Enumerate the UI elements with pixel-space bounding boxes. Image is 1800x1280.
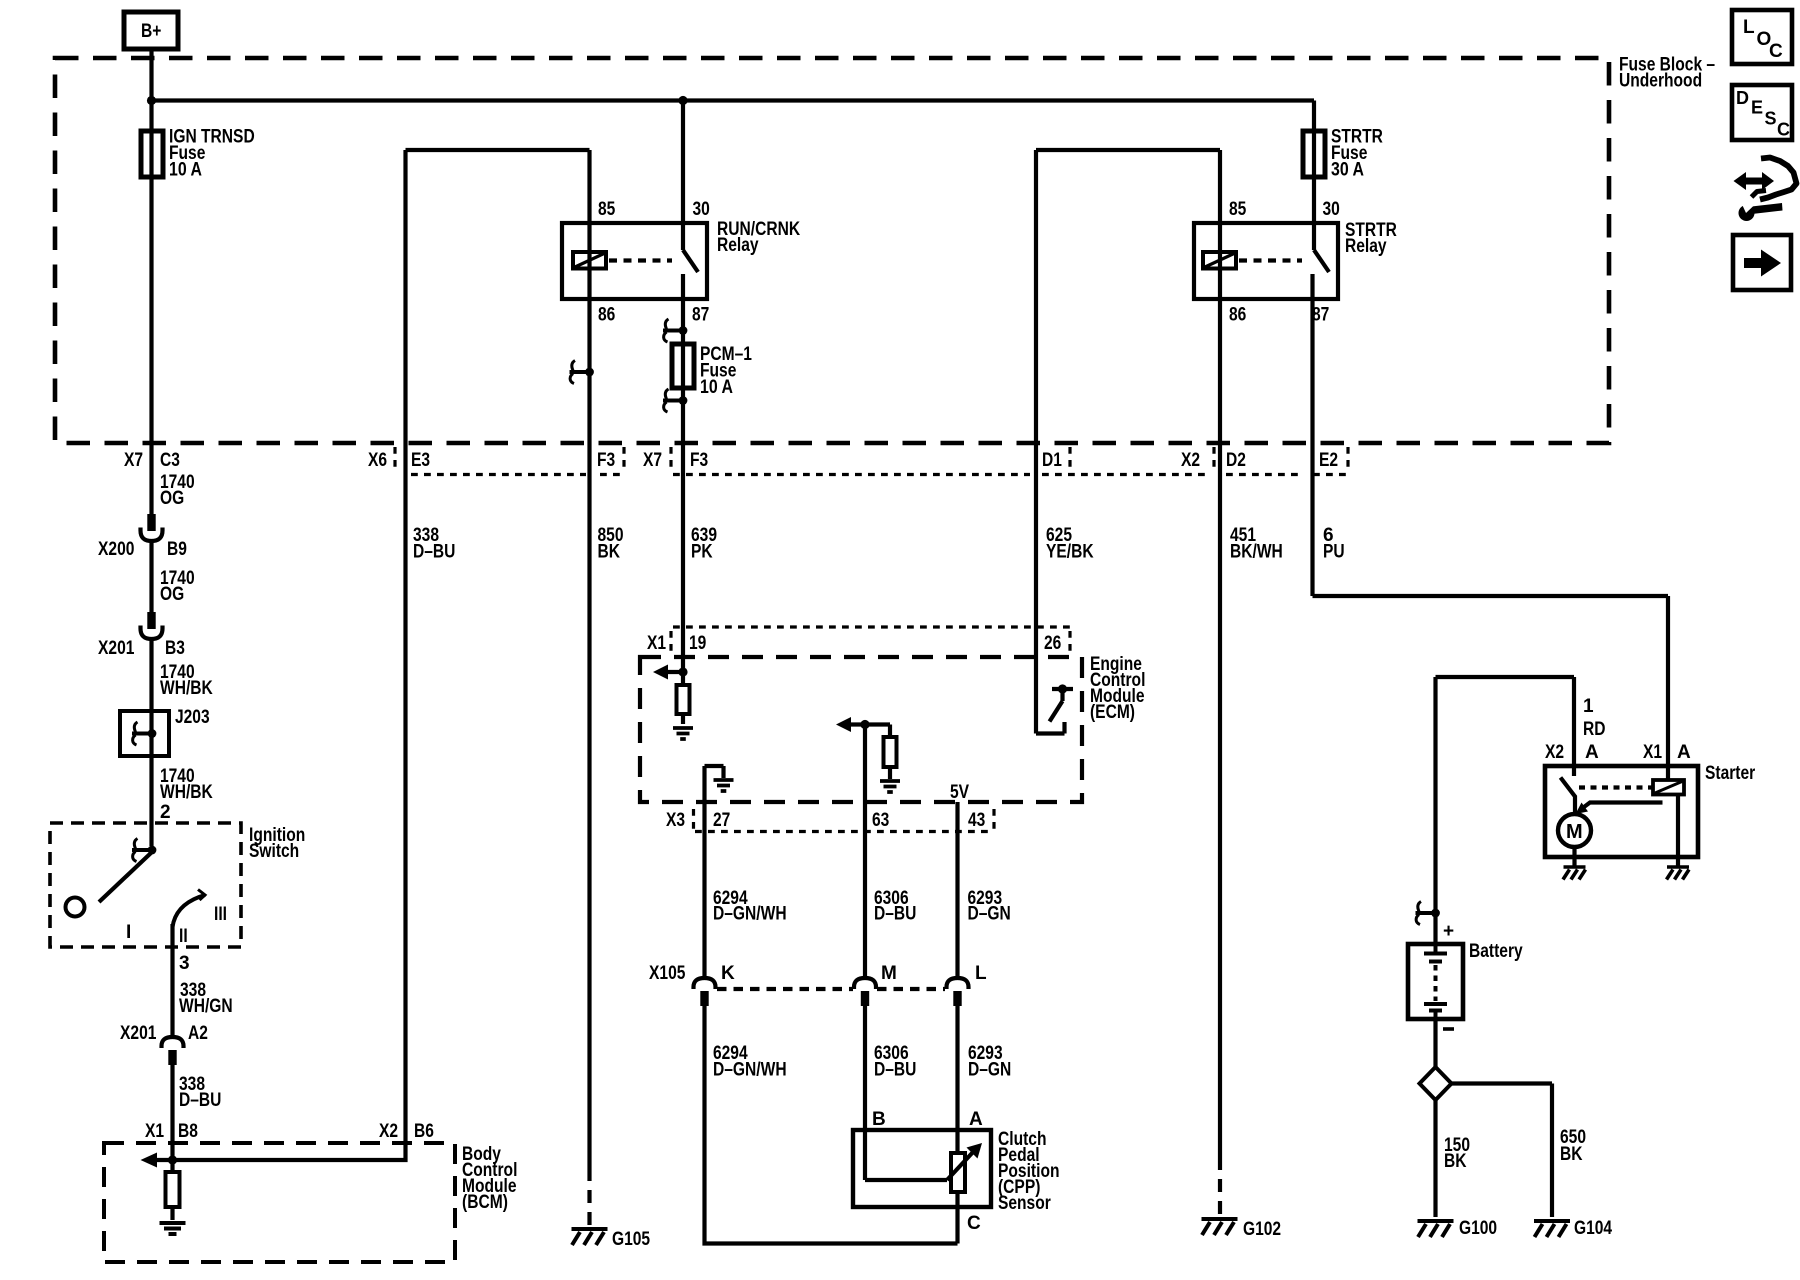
svg-text:X200: X200 xyxy=(98,539,134,560)
svg-text:(BCM): (BCM) xyxy=(462,1192,508,1213)
svg-text:A: A xyxy=(969,1109,983,1130)
svg-text:D–GN: D–GN xyxy=(968,904,1011,925)
svg-text:PK: PK xyxy=(691,542,713,563)
svg-text:C: C xyxy=(1777,120,1790,140)
svg-text:X2: X2 xyxy=(379,1121,398,1142)
svg-text:OG: OG xyxy=(160,584,184,605)
svg-text:D–BU: D–BU xyxy=(874,904,916,925)
svg-text:D2: D2 xyxy=(1226,450,1246,471)
svg-text:86: 86 xyxy=(1229,305,1246,326)
svg-text:X201: X201 xyxy=(120,1023,157,1044)
svg-text:X201: X201 xyxy=(98,638,135,659)
svg-text:X6: X6 xyxy=(368,450,387,471)
svg-text:85: 85 xyxy=(598,199,616,220)
svg-text:X2: X2 xyxy=(1181,450,1200,471)
svg-text:D1: D1 xyxy=(1042,450,1062,471)
svg-text:C3: C3 xyxy=(160,450,180,471)
svg-text:43: 43 xyxy=(968,810,985,831)
svg-text:B: B xyxy=(872,1109,886,1130)
svg-text:5V: 5V xyxy=(950,782,969,803)
svg-text:27: 27 xyxy=(713,810,730,831)
svg-text:X1: X1 xyxy=(145,1121,164,1142)
svg-text:D–GN: D–GN xyxy=(968,1060,1011,1081)
svg-text:Underhood: Underhood xyxy=(1619,71,1702,92)
svg-text:Relay: Relay xyxy=(717,235,759,256)
svg-text:D–GN/WH: D–GN/WH xyxy=(713,1060,787,1081)
svg-text:L: L xyxy=(975,963,987,984)
svg-text:10 A: 10 A xyxy=(169,160,202,181)
svg-text:C: C xyxy=(967,1213,981,1234)
svg-text:B9: B9 xyxy=(167,539,187,560)
svg-text:2: 2 xyxy=(160,802,171,823)
svg-text:G104: G104 xyxy=(1574,1218,1612,1239)
svg-text:B6: B6 xyxy=(414,1121,434,1142)
svg-text:30 A: 30 A xyxy=(1331,160,1364,181)
svg-text:X2: X2 xyxy=(1545,742,1564,763)
svg-text:E3: E3 xyxy=(411,450,430,471)
svg-text:BK: BK xyxy=(1560,1144,1583,1165)
svg-text:X3: X3 xyxy=(666,810,685,831)
svg-text:X1: X1 xyxy=(1643,742,1662,763)
svg-text:M: M xyxy=(1566,821,1583,843)
svg-text:BK: BK xyxy=(1444,1151,1467,1172)
svg-text:+: + xyxy=(1443,921,1454,942)
svg-text:BK/WH: BK/WH xyxy=(1230,542,1283,563)
svg-text:E2: E2 xyxy=(1319,450,1338,471)
svg-text:D–BU: D–BU xyxy=(179,1090,221,1111)
svg-text:III: III xyxy=(214,904,227,925)
svg-text:10 A: 10 A xyxy=(700,377,733,398)
svg-text:D: D xyxy=(1736,88,1749,108)
svg-text:F3: F3 xyxy=(597,450,615,471)
svg-text:3: 3 xyxy=(179,953,190,974)
svg-text:M: M xyxy=(881,963,897,984)
svg-text:I: I xyxy=(126,922,131,943)
svg-text:Relay: Relay xyxy=(1345,236,1387,257)
svg-text:85: 85 xyxy=(1229,199,1247,220)
svg-text:G100: G100 xyxy=(1459,1218,1497,1239)
svg-text:X105: X105 xyxy=(649,963,686,984)
svg-text:K: K xyxy=(721,963,735,984)
svg-text:F3: F3 xyxy=(690,450,708,471)
svg-text:WH/BK: WH/BK xyxy=(160,782,213,803)
svg-text:B8: B8 xyxy=(178,1121,198,1142)
svg-text:19: 19 xyxy=(689,633,706,654)
svg-text:BK: BK xyxy=(598,542,621,563)
svg-text:Battery: Battery xyxy=(1469,941,1523,962)
svg-text:PU: PU xyxy=(1323,542,1345,563)
svg-text:86: 86 xyxy=(598,305,615,326)
svg-text:L: L xyxy=(1743,17,1755,38)
svg-text:OG: OG xyxy=(160,488,184,509)
svg-text:A: A xyxy=(1585,742,1599,763)
svg-text:Sensor: Sensor xyxy=(998,1193,1051,1214)
svg-text:30: 30 xyxy=(693,199,710,220)
svg-text:87: 87 xyxy=(1312,305,1329,326)
svg-text:J203: J203 xyxy=(175,707,210,728)
svg-text:C: C xyxy=(1769,41,1783,62)
svg-text:Switch: Switch xyxy=(249,841,299,862)
svg-text:1: 1 xyxy=(1583,696,1594,717)
svg-text:E: E xyxy=(1751,98,1763,118)
svg-text:X7: X7 xyxy=(124,450,143,471)
svg-text:63: 63 xyxy=(872,810,889,831)
svg-text:26: 26 xyxy=(1044,633,1061,654)
svg-text:WH/GN: WH/GN xyxy=(179,996,233,1017)
svg-text:B+: B+ xyxy=(141,21,161,42)
svg-text:D–BU: D–BU xyxy=(413,542,455,563)
svg-text:G105: G105 xyxy=(612,1229,650,1250)
svg-text:RD: RD xyxy=(1583,719,1606,740)
svg-text:A2: A2 xyxy=(188,1023,208,1044)
svg-text:D–GN/WH: D–GN/WH xyxy=(713,904,787,925)
svg-text:X1: X1 xyxy=(647,633,666,654)
svg-text:II: II xyxy=(179,926,188,947)
svg-text:(ECM): (ECM) xyxy=(1090,702,1135,723)
svg-text:WH/BK: WH/BK xyxy=(160,678,213,699)
svg-text:B3: B3 xyxy=(165,638,185,659)
svg-text:YE/BK: YE/BK xyxy=(1046,542,1094,563)
svg-text:30: 30 xyxy=(1323,199,1340,220)
svg-text:A: A xyxy=(1677,742,1691,763)
svg-text:D–BU: D–BU xyxy=(874,1060,916,1081)
svg-text:Starter: Starter xyxy=(1705,763,1756,784)
svg-text:G102: G102 xyxy=(1243,1219,1281,1240)
svg-text:87: 87 xyxy=(692,305,709,326)
svg-text:S: S xyxy=(1765,109,1777,129)
svg-text:X7: X7 xyxy=(643,450,662,471)
